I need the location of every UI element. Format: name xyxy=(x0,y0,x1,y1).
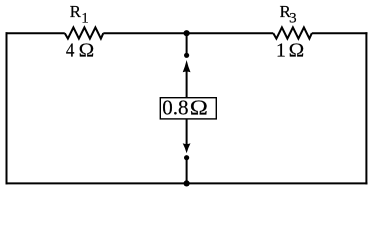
wire arrow shaft lower xyxy=(186,119,188,144)
svg-text:R: R xyxy=(70,2,82,21)
svg-text:Ω: Ω xyxy=(79,40,95,61)
wire left vertical xyxy=(6,32,8,184)
wire right vertical xyxy=(365,32,367,184)
arrowhead up xyxy=(183,60,191,72)
node junction dot top xyxy=(184,30,190,36)
wire stub from lower terminal to bottom junction xyxy=(186,160,188,184)
svg-text:3: 3 xyxy=(289,10,297,26)
arrowhead down xyxy=(183,143,191,153)
node junction dot bottom xyxy=(184,180,190,186)
node terminal dot lower xyxy=(184,155,189,160)
wire stub from top junction to terminal xyxy=(186,33,188,53)
wire top left segment xyxy=(6,32,65,34)
wire top right segment xyxy=(312,32,368,34)
node terminal dot upper xyxy=(184,53,189,58)
svg-text:0.8: 0.8 xyxy=(162,96,188,120)
svg-text:4: 4 xyxy=(66,39,75,62)
wire arrow shaft upper xyxy=(186,71,188,99)
resistor R1 xyxy=(65,27,104,38)
svg-text:Ω: Ω xyxy=(190,96,208,119)
resistance box 0.8 ohm xyxy=(160,98,216,119)
wire top middle segment xyxy=(103,32,273,34)
svg-text:Ω: Ω xyxy=(289,40,305,61)
resistor R3 xyxy=(273,27,312,38)
wire bottom xyxy=(6,182,368,184)
svg-text:1: 1 xyxy=(276,40,286,62)
svg-text:1: 1 xyxy=(81,10,89,26)
